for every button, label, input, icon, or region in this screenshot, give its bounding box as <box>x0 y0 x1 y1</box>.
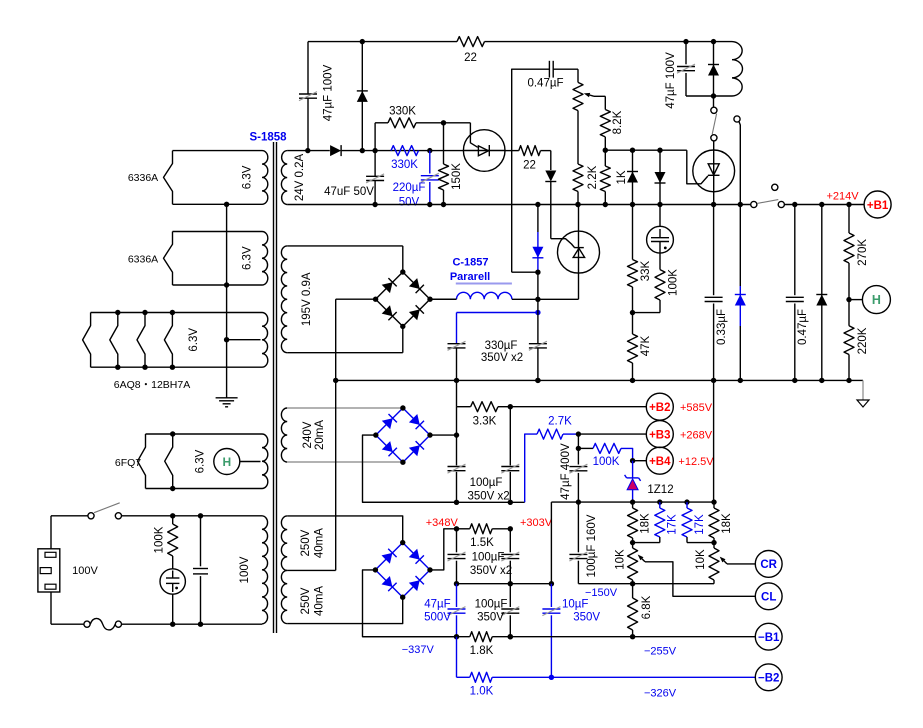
svg-text:100V: 100V <box>239 556 251 583</box>
svg-text:18K: 18K <box>640 513 652 534</box>
transformer core <box>274 142 277 633</box>
heater 6336A no2 <box>128 232 262 288</box>
diode D5 down x660 <box>655 150 666 207</box>
svg-text:17K: 17K <box>694 514 706 535</box>
svg-text:240V: 240V <box>302 421 314 448</box>
resistor 330K black <box>375 106 470 128</box>
wire +B4 row <box>633 460 647 462</box>
diode D1 (24V rect) <box>330 145 341 156</box>
opto U1 circle <box>463 123 505 171</box>
wire BR2 plus <box>430 432 459 437</box>
heaters 6AQ8 12BH7A <box>83 310 262 391</box>
choke C-1857 <box>430 257 538 300</box>
heater 6FQ7 <box>115 431 262 491</box>
wire mid rail left <box>457 581 555 586</box>
wire gray 240V bottom <box>287 461 403 463</box>
wire BR2 minus <box>363 435 457 502</box>
capacitor 330uF no2 <box>529 272 547 383</box>
svg-text:6336A: 6336A <box>128 254 158 266</box>
svg-text:6.3V: 6.3V <box>242 246 254 270</box>
pot P1 wiper <box>584 93 606 97</box>
ground symbol left <box>216 398 238 407</box>
fuse F1 <box>51 618 122 630</box>
wire 250V-2 bottom <box>287 597 403 623</box>
wire mains top <box>51 513 262 518</box>
svg-text:150K: 150K <box>451 163 463 190</box>
svg-text:220K: 220K <box>857 327 869 354</box>
wire +B2 row <box>510 406 646 408</box>
winding 195V <box>281 246 313 353</box>
resistor 330K blue <box>391 146 419 171</box>
capacitor 100uF350V <box>475 584 520 640</box>
svg-text:2.7K: 2.7K <box>548 415 572 427</box>
capacitor 47uF400V <box>560 443 587 502</box>
winding 6.3V no1 <box>242 151 268 205</box>
svg-text:330µF: 330µF <box>485 340 518 352</box>
svg-text:10K: 10K <box>615 549 627 570</box>
winding 6.3V no4 <box>195 434 268 489</box>
diode D8 up x822 <box>816 205 827 381</box>
wire ground bus 380.4 <box>333 378 863 383</box>
wire BR1 minus <box>336 299 376 380</box>
svg-text:+B1: +B1 <box>867 200 889 212</box>
svg-text:100µF: 100µF <box>472 552 505 564</box>
svg-text:6.3V: 6.3V <box>188 328 200 352</box>
svg-text:0.47µF: 0.47µF <box>797 309 809 345</box>
svg-text:+12.5V: +12.5V <box>678 456 714 468</box>
resistor 47K <box>628 313 653 381</box>
capacitor 47uF100V <box>665 42 695 109</box>
svg-text:22: 22 <box>523 160 536 172</box>
resistor 17K no1 blue <box>633 502 679 542</box>
svg-text:40mA: 40mA <box>314 528 326 558</box>
wire x714 col <box>713 380 715 502</box>
svg-text:+B4: +B4 <box>649 456 671 468</box>
terminal +B3 <box>646 421 673 448</box>
capacitor 220uF50V blue <box>393 151 439 209</box>
svg-text:+268V: +268V <box>680 429 713 441</box>
wire column x456 mid <box>454 380 459 505</box>
winding 250V no1 <box>281 516 325 571</box>
svg-text:−B1: −B1 <box>758 632 780 644</box>
SCR U3 circle <box>693 150 735 205</box>
terminal -B2 <box>755 664 782 691</box>
plug 100V <box>38 516 99 624</box>
SCR U2 circle <box>558 205 600 300</box>
svg-text:−326V: −326V <box>644 688 677 700</box>
diode D3 down x551 <box>545 151 556 239</box>
resistor 33K <box>628 205 653 316</box>
wire rail502 left <box>363 501 525 503</box>
resistor 3.3K <box>457 402 514 428</box>
svg-text:100µF 160V: 100µF 160V <box>586 514 598 577</box>
svg-text:24V 0.2A: 24V 0.2A <box>294 154 306 202</box>
wire mains bottom <box>122 622 263 627</box>
wire BR3 minus <box>363 570 457 637</box>
svg-text:1Z12: 1Z12 <box>647 484 673 496</box>
resistor 6.8K <box>628 584 654 637</box>
svg-text:250V: 250V <box>300 587 312 614</box>
svg-text:−337V: −337V <box>402 644 435 656</box>
svg-text:+585V: +585V <box>680 402 713 414</box>
switch SW2 on rail <box>751 184 785 207</box>
label +348V <box>426 517 459 529</box>
capacitor 100uF no4 <box>470 529 519 587</box>
svg-text:47µF: 47µF <box>424 599 450 611</box>
label S-1858 <box>249 132 287 144</box>
winding 100V <box>239 516 268 624</box>
resistor 18K no2 <box>709 502 733 545</box>
wire -255 row <box>363 634 756 639</box>
label +214V <box>826 191 859 203</box>
resistor 100K neon <box>633 253 680 313</box>
capacitor 10uF350V blue <box>542 584 600 678</box>
capacitor 100uF160V <box>569 502 598 584</box>
neon lamp NE2 <box>647 205 674 254</box>
resistor 18K no1 <box>628 502 652 545</box>
svg-text:C-1857: C-1857 <box>452 257 488 269</box>
winding 24V <box>281 151 306 205</box>
svg-text:18K: 18K <box>721 513 733 534</box>
wire top rail 41.6 <box>308 39 732 44</box>
svg-text:350V: 350V <box>477 612 504 624</box>
heater 6336A no1 <box>128 151 262 207</box>
resistor 1.8K <box>470 632 513 657</box>
svg-text:47K: 47K <box>640 335 652 356</box>
resistor 2.7K blue <box>537 415 581 439</box>
label -150V <box>585 587 618 599</box>
diode D4 up x632 <box>627 150 638 207</box>
svg-text:H: H <box>872 293 881 307</box>
wire gray 240V top <box>287 407 403 409</box>
wire 195V bottom <box>287 326 403 353</box>
bridge rectifier BR3 <box>373 540 433 600</box>
resistor 22 (mid) <box>519 146 541 172</box>
svg-text:500V: 500V <box>424 612 451 624</box>
svg-text:CL: CL <box>761 592 776 604</box>
svg-text:270K: 270K <box>857 239 869 266</box>
capacitor 100uF no3 <box>448 529 466 587</box>
label -337V <box>402 644 435 656</box>
svg-text:330K: 330K <box>389 106 416 118</box>
svg-text:6.3V: 6.3V <box>242 165 254 189</box>
svg-text:22: 22 <box>464 52 477 64</box>
potentiometer 10K no1 <box>615 543 638 584</box>
label +12.5V <box>678 456 714 468</box>
svg-text:40mA: 40mA <box>314 586 326 616</box>
svg-text:50V: 50V <box>399 197 420 209</box>
svg-text:−255V: −255V <box>644 646 677 658</box>
wire heater center tap column <box>224 204 261 397</box>
potentiometer 10K no2 <box>695 543 719 584</box>
svg-text:350V: 350V <box>573 612 600 624</box>
wire left drop x308 <box>307 42 309 151</box>
wire x375 330K-to-bus <box>372 123 377 207</box>
svg-text:+B2: +B2 <box>649 402 670 414</box>
wire +B3 row <box>578 433 646 435</box>
relay switch contact <box>711 96 717 150</box>
neon lamp NE1 <box>160 569 185 624</box>
svg-text:17K: 17K <box>667 514 679 535</box>
pot 10K no2 wiper <box>720 557 756 564</box>
svg-text:100µF: 100µF <box>475 599 508 611</box>
wire blue 312.5 <box>457 310 541 315</box>
svg-text:350V x2: 350V x2 <box>467 491 509 503</box>
resistor 1K <box>600 150 628 207</box>
svg-text:8.2K: 8.2K <box>612 110 624 134</box>
svg-text:6.3V: 6.3V <box>195 449 207 473</box>
relay NC contact <box>734 116 740 205</box>
svg-text:6AQ8・12BH7A: 6AQ8・12BH7A <box>114 379 190 391</box>
switch SW1 mains <box>88 503 122 519</box>
diode D7 blue up x740 <box>735 205 746 381</box>
capacitor 0.47uF (top) <box>527 61 563 90</box>
svg-text:6336A: 6336A <box>128 172 158 184</box>
svg-text:1K: 1K <box>616 170 628 184</box>
zener 1Z12 <box>625 461 674 502</box>
wire SCR2 bottom <box>535 297 578 302</box>
wire BR3 plus <box>430 529 457 570</box>
resistor 100K blue <box>576 434 636 468</box>
wire mid rail right <box>578 581 714 586</box>
svg-text:47uF 50V: 47uF 50V <box>324 186 374 198</box>
svg-text:330K: 330K <box>391 159 418 171</box>
svg-text:100K: 100K <box>154 526 166 553</box>
svg-text:10K: 10K <box>695 549 707 570</box>
capacitor 47uF500V blue <box>424 584 465 640</box>
wire 250V-1 top <box>287 516 403 543</box>
wire x551 col <box>550 502 552 584</box>
capacitor 47uF100V left <box>299 64 335 121</box>
terminal -B1 <box>755 623 782 650</box>
svg-text:0.47µF: 0.47µF <box>527 77 563 89</box>
svg-text:350V x2: 350V x2 <box>470 565 512 577</box>
svg-text:20mA: 20mA <box>314 420 326 450</box>
svg-text:100µF: 100µF <box>470 477 503 489</box>
svg-text:+348V: +348V <box>426 517 459 529</box>
terminal +B1 <box>864 191 891 218</box>
svg-text:1.0K: 1.0K <box>470 686 494 698</box>
wire x362 up <box>361 42 363 151</box>
bridge rectifier BR1 <box>373 269 433 329</box>
svg-text:100V: 100V <box>72 565 98 577</box>
svg-text:+303V: +303V <box>520 517 553 529</box>
svg-text:350V x2: 350V x2 <box>481 352 523 364</box>
resistor 22 (top) <box>457 37 485 64</box>
capacitor 330uF no1 <box>448 313 524 381</box>
terminal CR <box>755 551 782 578</box>
svg-text:1.5K: 1.5K <box>470 537 494 549</box>
svg-text:3.3K: 3.3K <box>473 415 497 427</box>
resistor 150K <box>439 123 463 207</box>
ground symbol right <box>857 380 869 407</box>
label +585V <box>680 402 713 414</box>
svg-text:S-1858: S-1858 <box>249 132 287 144</box>
capacitor mains <box>193 516 208 624</box>
wire x511 long vertical <box>512 69 550 272</box>
svg-text:+B3: +B3 <box>649 429 670 441</box>
svg-text:47µF 100V: 47µF 100V <box>323 64 335 121</box>
diode D-relay <box>708 42 719 96</box>
label +303V <box>520 517 553 529</box>
svg-text:H: H <box>222 455 231 469</box>
winding 250V no2 <box>281 570 325 623</box>
resistor 2.2K <box>573 164 599 207</box>
bridge rectifier BR2 <box>373 405 433 465</box>
wire blue 2.7K riser <box>525 434 537 502</box>
wire 195V top <box>287 246 403 272</box>
svg-text:6.8K: 6.8K <box>641 595 653 619</box>
wire 24V top rail <box>287 148 551 153</box>
wire gate SCR2 <box>551 239 575 248</box>
terminal +B2 <box>646 393 673 420</box>
resistor 220K <box>844 300 869 381</box>
winding 240V <box>281 408 325 462</box>
svg-text:2.2K: 2.2K <box>587 165 599 189</box>
svg-text:33K: 33K <box>640 260 652 281</box>
svg-text:100K: 100K <box>593 456 620 468</box>
resistor 270K <box>844 205 869 303</box>
wire relay bottom <box>686 93 732 98</box>
potentiometer P1 <box>573 69 583 164</box>
svg-text:195V 0.9A: 195V 0.9A <box>301 272 313 326</box>
capacitor 0.47uF no2 <box>786 205 809 381</box>
terminal +B4 <box>646 447 673 474</box>
winding 6.3V no2 <box>242 232 268 286</box>
capacitor 47uF50V <box>324 174 384 198</box>
wire 250V center tap <box>287 380 336 570</box>
svg-text:0.33µF: 0.33µF <box>716 309 728 345</box>
svg-text:−B2: −B2 <box>758 673 779 685</box>
winding 6.3V no3 <box>188 313 268 368</box>
diode D2 up x362 <box>357 91 368 102</box>
label -255V <box>644 646 677 658</box>
wire row 150.2 <box>605 148 687 153</box>
terminal H right <box>849 286 890 314</box>
resistor 8.2K <box>600 96 624 153</box>
capacitor 100uF no2 <box>467 407 519 505</box>
label -326V <box>644 688 677 700</box>
relay coil <box>732 42 743 96</box>
svg-text:220µF: 220µF <box>393 182 426 194</box>
wire BR1 plus <box>430 298 457 300</box>
resistor 1.5K <box>454 524 513 549</box>
pot 10K no1 wiper <box>638 555 756 597</box>
svg-text:−150V: −150V <box>585 587 618 599</box>
label +268V <box>680 429 713 441</box>
svg-text:10µF: 10µF <box>562 599 588 611</box>
svg-text:1.8K: 1.8K <box>470 645 494 657</box>
svg-text:47µF 100V: 47µF 100V <box>665 52 677 109</box>
wire x511 to x538 <box>512 271 538 273</box>
svg-text:6FQ7: 6FQ7 <box>115 457 141 469</box>
capacitor 100uF no1 <box>448 464 466 473</box>
resistor 1.0K blue <box>470 672 494 697</box>
svg-text:CR: CR <box>760 559 777 571</box>
diode D6 blue down x538 <box>532 205 543 275</box>
svg-text:100K: 100K <box>668 269 680 296</box>
wire rail 502.1 <box>551 499 716 504</box>
terminal H left <box>214 449 261 475</box>
svg-text:Pararell: Pararell <box>450 271 490 283</box>
svg-text:+214V: +214V <box>826 191 859 203</box>
wire main rail 204.5 <box>287 202 864 207</box>
resistor 17K no2 blue <box>682 502 714 542</box>
svg-text:47µF 400V: 47µF 400V <box>560 443 572 500</box>
wire cap to pot <box>553 68 578 70</box>
resistor 100K mains <box>154 516 178 569</box>
svg-text:250V: 250V <box>300 529 312 556</box>
wire -326 row blue <box>457 637 756 680</box>
terminal CL <box>755 583 782 610</box>
wire gate SCR3 <box>687 150 708 184</box>
capacitor 0.33uF <box>705 205 728 381</box>
